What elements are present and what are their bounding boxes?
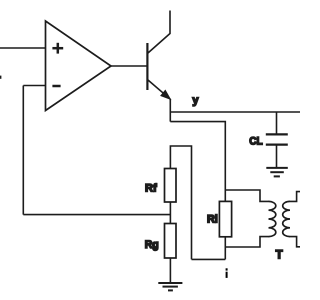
wire emitter drop xyxy=(169,99,171,122)
resistor Rg xyxy=(165,224,177,259)
op-amp U1 xyxy=(46,21,112,111)
wire op-amp output to base xyxy=(111,65,147,67)
wire transformer secondary bottom lead xyxy=(290,237,300,247)
svg-text:T: T xyxy=(276,250,283,262)
wire branch to transformer primary top xyxy=(225,190,268,201)
resistor Ri bottom lead xyxy=(224,237,226,260)
transistor Q1 base bar xyxy=(146,43,148,90)
resistor Rf xyxy=(165,169,177,203)
capacitor CL bottom lead xyxy=(276,145,278,168)
wire transformer primary bottom lead xyxy=(225,237,268,247)
wire bottom rail xyxy=(192,258,226,260)
transformer T primary winding xyxy=(269,201,276,236)
svg-text:Rg: Rg xyxy=(145,239,159,251)
svg-text:Ri: Ri xyxy=(207,213,218,225)
capacitor CL xyxy=(266,134,288,144)
resistor Ri xyxy=(219,201,231,236)
wire feedback vertical xyxy=(22,86,24,215)
resistor Rg bottom lead xyxy=(169,258,171,283)
wire inverting input stub xyxy=(23,85,45,87)
wire lower branch to Ri/transformer xyxy=(170,122,225,202)
capacitor CL top lead xyxy=(276,112,278,134)
node y wire xyxy=(170,111,300,113)
wire non-inverting input xyxy=(0,47,46,49)
transistor Q1 emitter xyxy=(147,80,170,100)
wire feedback horizontal to Rf/Rg node xyxy=(23,214,170,216)
svg-text:CL: CL xyxy=(249,136,263,148)
clipped label at left edge xyxy=(0,76,1,79)
wire transformer secondary top lead xyxy=(290,192,300,202)
transistor Q1 collector xyxy=(147,11,170,54)
svg-text:Rf: Rf xyxy=(145,182,157,194)
ground below CL xyxy=(266,168,288,177)
label i xyxy=(226,268,228,278)
transformer T secondary winding xyxy=(283,201,290,236)
resistor Rf top lead and hook to right vertical xyxy=(170,146,191,259)
transistor Q1 emitter arrowhead xyxy=(161,90,170,99)
op-amp '+' input symbol xyxy=(52,43,63,54)
wire Rf to Rg xyxy=(169,202,171,224)
op-amp '-' input symbol xyxy=(52,85,60,88)
ground below Rg xyxy=(158,283,182,290)
svg-text:y: y xyxy=(192,95,199,107)
